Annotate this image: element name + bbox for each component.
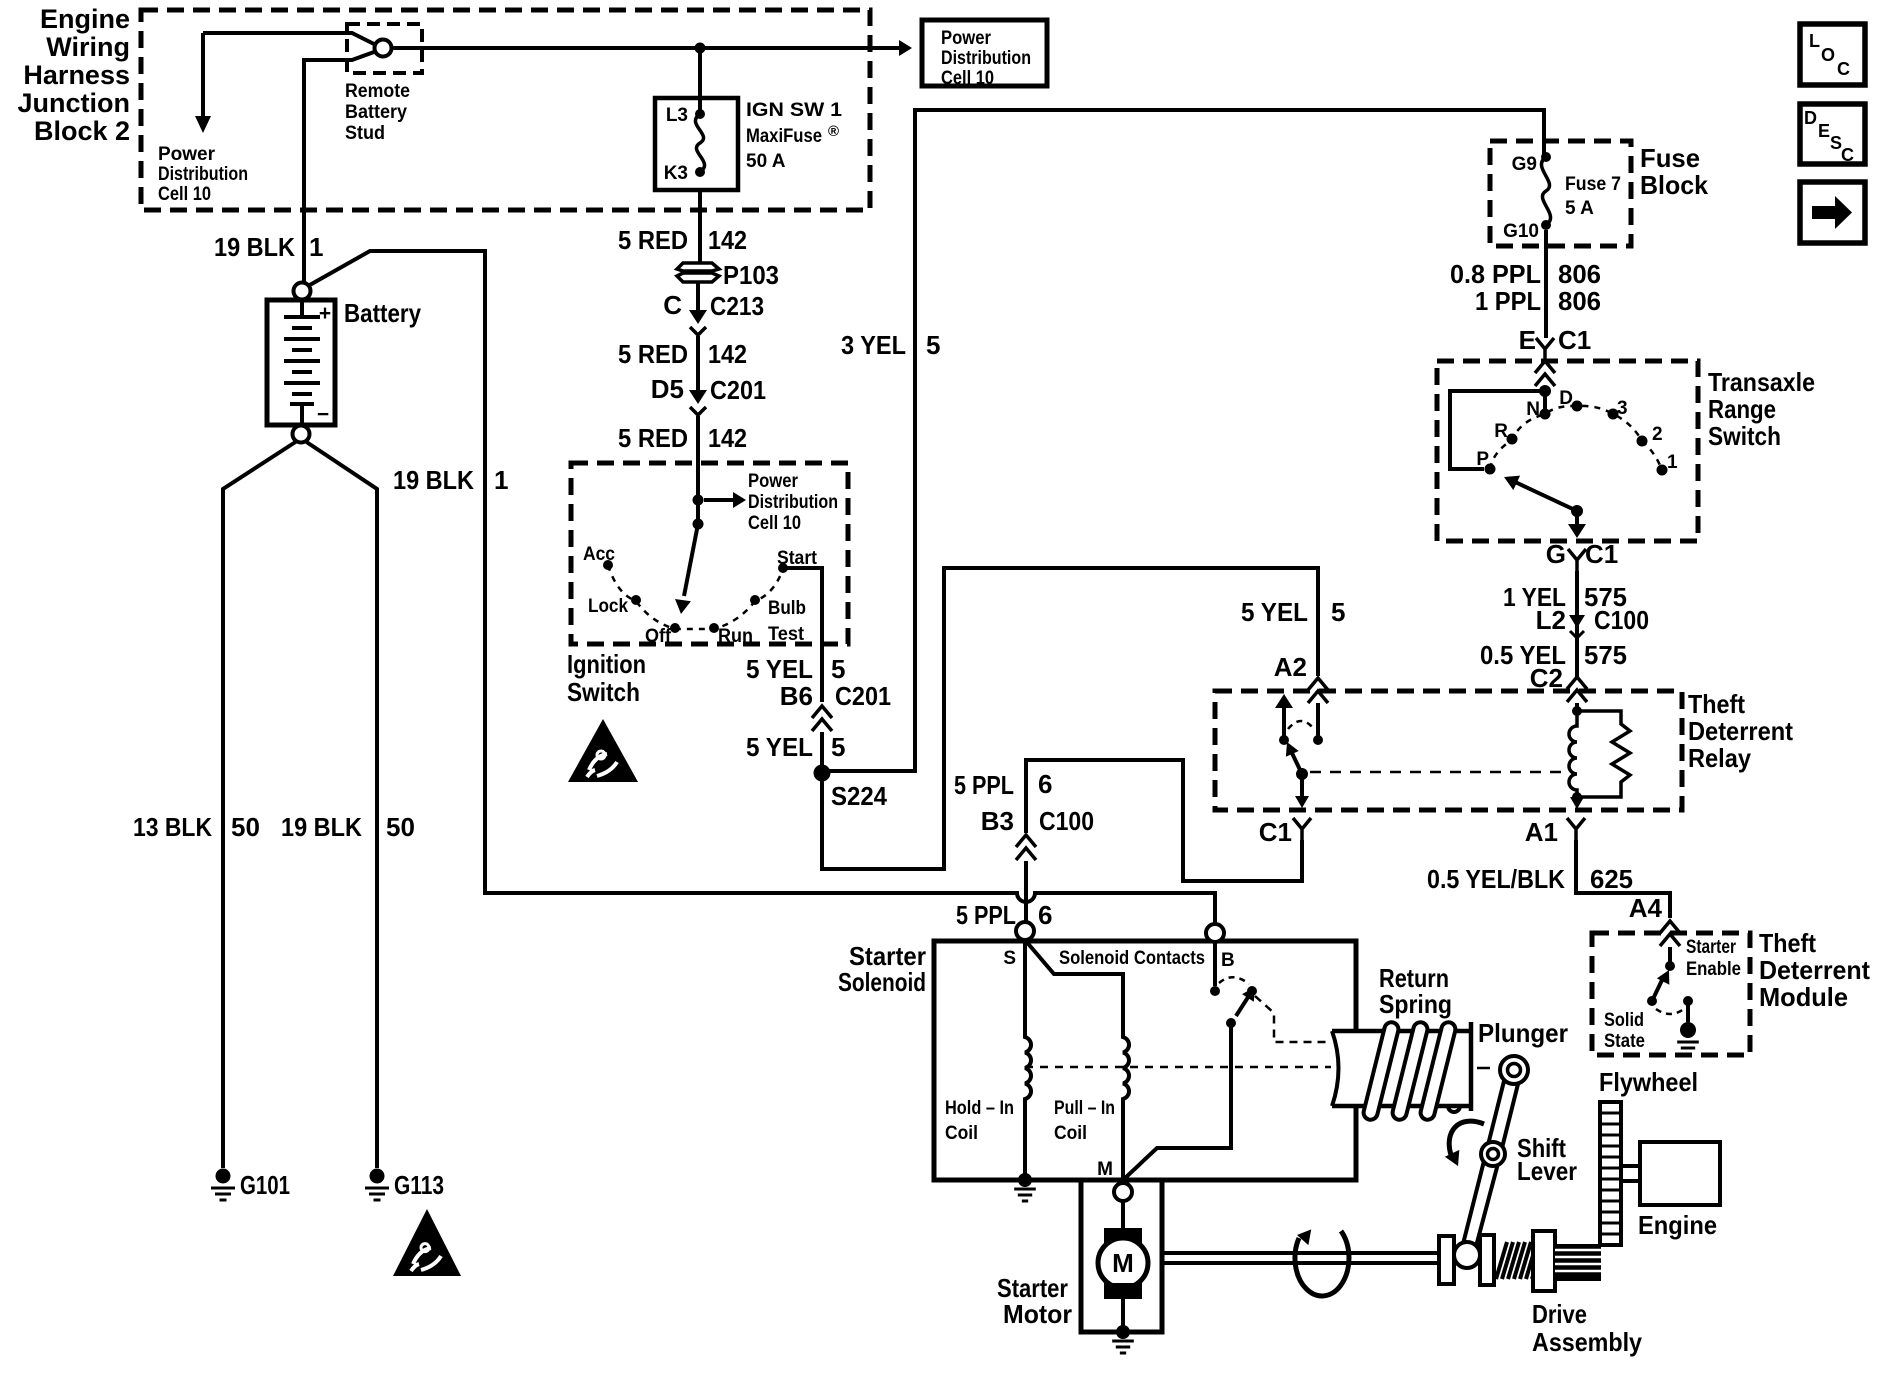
svg-text:Block: Block xyxy=(1640,170,1709,200)
svg-text:Power: Power xyxy=(941,28,992,49)
svg-text:Engine: Engine xyxy=(1638,1210,1717,1240)
svg-text:Junction: Junction xyxy=(18,88,131,118)
svg-text:5 YEL: 5 YEL xyxy=(746,732,813,762)
svg-text:Block 2: Block 2 xyxy=(34,116,130,146)
svg-text:Flywheel: Flywheel xyxy=(1599,1067,1698,1097)
svg-text:Battery: Battery xyxy=(344,298,421,328)
svg-text:0.5 YEL/BLK: 0.5 YEL/BLK xyxy=(1427,864,1565,894)
svg-text:Cell 10: Cell 10 xyxy=(941,68,994,89)
svg-text:Lock: Lock xyxy=(588,596,628,617)
svg-text:Switch: Switch xyxy=(567,677,640,707)
svg-text:P103: P103 xyxy=(723,260,779,290)
svg-text:5: 5 xyxy=(831,732,845,762)
svg-text:Fuse: Fuse xyxy=(1640,143,1700,173)
svg-text:S224: S224 xyxy=(831,781,887,811)
svg-text:Solid: Solid xyxy=(1604,1010,1644,1031)
svg-text:Battery: Battery xyxy=(345,102,407,123)
svg-text:Relay: Relay xyxy=(1688,743,1751,773)
svg-text:P: P xyxy=(1476,449,1489,470)
svg-text:Distribution: Distribution xyxy=(748,492,838,513)
svg-text:Wiring: Wiring xyxy=(46,32,130,62)
svg-text:Transaxle: Transaxle xyxy=(1708,367,1815,397)
svg-text:C: C xyxy=(1837,59,1850,79)
svg-text:5: 5 xyxy=(1331,597,1345,627)
svg-text:3: 3 xyxy=(1617,398,1628,419)
svg-text:C2: C2 xyxy=(1530,663,1563,693)
svg-text:K3: K3 xyxy=(664,163,688,184)
svg-text:®: ® xyxy=(828,123,839,140)
svg-text:Power: Power xyxy=(748,471,799,492)
svg-text:D: D xyxy=(1804,108,1817,128)
svg-text:Ignition: Ignition xyxy=(567,649,646,679)
svg-text:Solenoid: Solenoid xyxy=(838,967,926,997)
svg-text:A2: A2 xyxy=(1274,652,1307,682)
svg-text:C100: C100 xyxy=(1594,605,1649,635)
svg-text:A1: A1 xyxy=(1525,817,1558,847)
svg-text:Off: Off xyxy=(645,626,672,647)
svg-text:−: − xyxy=(317,403,329,426)
svg-text:Cell 10: Cell 10 xyxy=(158,184,211,205)
svg-text:Assembly: Assembly xyxy=(1532,1327,1642,1357)
svg-text:Range: Range xyxy=(1708,394,1776,424)
svg-text:5 RED: 5 RED xyxy=(618,339,688,369)
svg-text:Theft: Theft xyxy=(1759,928,1816,958)
svg-text:1: 1 xyxy=(309,232,323,262)
svg-text:D: D xyxy=(1559,388,1573,409)
svg-text:5 YEL: 5 YEL xyxy=(1241,597,1308,627)
svg-text:Lever: Lever xyxy=(1517,1156,1577,1186)
svg-text:C: C xyxy=(1841,145,1854,165)
svg-text:Starter: Starter xyxy=(1686,937,1736,958)
svg-text:A4: A4 xyxy=(1629,893,1663,923)
svg-text:O: O xyxy=(1821,45,1835,65)
svg-text:Module: Module xyxy=(1759,982,1848,1012)
svg-text:Solenoid Contacts: Solenoid Contacts xyxy=(1059,948,1205,969)
svg-text:Drive: Drive xyxy=(1532,1299,1587,1329)
svg-text:2: 2 xyxy=(1652,424,1663,445)
svg-text:Motor: Motor xyxy=(1003,1299,1072,1329)
svg-text:+: + xyxy=(319,302,331,325)
svg-text:Acc: Acc xyxy=(583,544,615,565)
svg-text:5 PPL: 5 PPL xyxy=(954,770,1014,800)
svg-text:Coil: Coil xyxy=(945,1123,978,1144)
svg-text:C1: C1 xyxy=(1259,817,1292,847)
svg-text:S: S xyxy=(1003,948,1016,969)
svg-text:19 BLK: 19 BLK xyxy=(281,812,362,842)
svg-text:1: 1 xyxy=(494,465,508,495)
svg-text:Coil: Coil xyxy=(1054,1123,1087,1144)
svg-text:D5: D5 xyxy=(651,374,684,404)
svg-text:50 A: 50 A xyxy=(746,151,786,172)
svg-text:806: 806 xyxy=(1558,286,1601,316)
svg-text:C201: C201 xyxy=(835,681,891,711)
svg-text:Plunger: Plunger xyxy=(1478,1018,1568,1048)
svg-text:C100: C100 xyxy=(1039,806,1094,836)
svg-text:E: E xyxy=(1519,325,1536,355)
svg-text:5: 5 xyxy=(926,330,940,360)
svg-text:19 BLK: 19 BLK xyxy=(214,232,295,262)
svg-text:5 RED: 5 RED xyxy=(618,225,688,255)
svg-text:MaxiFuse: MaxiFuse xyxy=(746,126,822,147)
svg-text:50: 50 xyxy=(386,812,415,842)
svg-text:Run: Run xyxy=(718,626,753,647)
svg-text:Fuse 7: Fuse 7 xyxy=(1565,174,1621,195)
svg-text:G: G xyxy=(1546,539,1566,569)
svg-text:L3: L3 xyxy=(666,105,688,126)
svg-text:142: 142 xyxy=(708,423,747,453)
svg-text:State: State xyxy=(1604,1031,1645,1052)
svg-text:Remote: Remote xyxy=(345,81,410,102)
svg-text:L: L xyxy=(1809,31,1820,51)
svg-text:M: M xyxy=(1097,1159,1113,1180)
svg-text:C1: C1 xyxy=(1585,539,1618,569)
svg-text:806: 806 xyxy=(1558,259,1601,289)
svg-text:M: M xyxy=(1112,1248,1134,1278)
svg-text:Distribution: Distribution xyxy=(158,164,248,185)
svg-text:N: N xyxy=(1526,399,1540,420)
svg-text:Bulb: Bulb xyxy=(768,598,806,619)
svg-text:50: 50 xyxy=(231,812,260,842)
svg-text:R: R xyxy=(1494,421,1508,442)
svg-text:142: 142 xyxy=(708,339,747,369)
svg-text:19 BLK: 19 BLK xyxy=(393,465,474,495)
svg-text:Enable: Enable xyxy=(1686,959,1741,980)
svg-text:Theft: Theft xyxy=(1688,689,1745,719)
svg-text:Power: Power xyxy=(158,144,216,165)
svg-text:L2: L2 xyxy=(1536,605,1566,635)
svg-text:G9: G9 xyxy=(1512,154,1537,175)
svg-text:C1: C1 xyxy=(1558,325,1591,355)
svg-text:5 YEL: 5 YEL xyxy=(746,654,813,684)
svg-text:6: 6 xyxy=(1038,900,1052,930)
svg-text:142: 142 xyxy=(708,225,747,255)
svg-text:E: E xyxy=(1818,121,1830,141)
svg-text:1: 1 xyxy=(1667,452,1678,473)
svg-text:B: B xyxy=(1221,950,1235,971)
svg-text:Engine: Engine xyxy=(40,4,130,34)
svg-text:IGN SW 1: IGN SW 1 xyxy=(746,100,842,121)
svg-text:C201: C201 xyxy=(710,375,766,405)
svg-text:Distribution: Distribution xyxy=(941,48,1031,69)
svg-text:Hold – In: Hold – In xyxy=(945,1098,1014,1119)
svg-text:B6: B6 xyxy=(780,681,813,711)
svg-text:Harness: Harness xyxy=(23,60,130,90)
svg-text:575: 575 xyxy=(1584,640,1627,670)
svg-text:Deterrent: Deterrent xyxy=(1688,716,1793,746)
svg-text:Test: Test xyxy=(768,624,805,645)
svg-text:3 YEL: 3 YEL xyxy=(841,330,906,360)
svg-text:0.8 PPL: 0.8 PPL xyxy=(1450,259,1541,289)
svg-text:1 PPL: 1 PPL xyxy=(1475,286,1541,316)
svg-text:625: 625 xyxy=(1590,864,1633,894)
svg-text:Pull – In: Pull – In xyxy=(1054,1098,1115,1119)
svg-text:6: 6 xyxy=(1038,769,1052,799)
svg-text:5 RED: 5 RED xyxy=(618,423,688,453)
svg-text:Deterrent: Deterrent xyxy=(1759,955,1870,985)
svg-text:G101: G101 xyxy=(240,1170,290,1200)
svg-text:Spring: Spring xyxy=(1379,989,1452,1019)
svg-text:Start: Start xyxy=(777,548,818,569)
svg-text:Stud: Stud xyxy=(345,123,385,144)
svg-text:5 A: 5 A xyxy=(1565,198,1594,219)
svg-text:5 PPL: 5 PPL xyxy=(956,900,1016,930)
svg-text:C213: C213 xyxy=(710,291,764,321)
svg-text:G113: G113 xyxy=(394,1170,444,1200)
svg-text:B3: B3 xyxy=(981,806,1014,836)
svg-text:G10: G10 xyxy=(1503,221,1539,242)
svg-text:Cell 10: Cell 10 xyxy=(748,513,801,534)
svg-text:5: 5 xyxy=(831,654,845,684)
svg-text:C: C xyxy=(663,290,682,320)
svg-text:Switch: Switch xyxy=(1708,421,1781,451)
svg-text:13 BLK: 13 BLK xyxy=(133,812,212,842)
